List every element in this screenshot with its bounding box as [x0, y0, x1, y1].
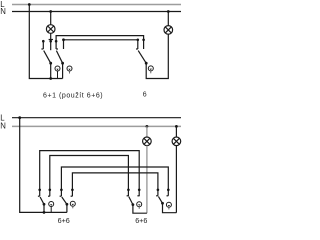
- glow lamp H4: [49, 202, 54, 207]
- junction lamp E2 on N: [167, 10, 170, 13]
- glow lamp H1: [55, 66, 60, 71]
- pivot dot S3b: [66, 203, 69, 206]
- wire N to lamp E1: [50, 12, 52, 25]
- switch blade S1a: [44, 51, 51, 64]
- pivot dot S4b: [161, 202, 164, 205]
- glow lamp H2: [67, 66, 72, 71]
- switch blade S2: [138, 51, 146, 64]
- wire pivot S1a to bus: [50, 63, 52, 78]
- wire N to lamp E3 (grey): [146, 126, 148, 137]
- traveler wire w3: [61, 167, 168, 196]
- switch blade S4b: [158, 196, 162, 203]
- junction pivot S1a on bus: [49, 77, 52, 80]
- pivot dot S1b: [61, 62, 64, 65]
- terminal dot right stub a: [137, 39, 140, 42]
- wire L line (bottom, black): [12, 117, 181, 119]
- lamp E3: [143, 137, 152, 146]
- contact ticks S4: [127, 195, 129, 197]
- wire L drop to left bus: [20, 118, 67, 213]
- wire lamp E1 to switch terminal: [50, 33, 52, 50]
- wire N line (top, black): [12, 11, 181, 13]
- junction lamp E1 to N: [49, 10, 52, 13]
- lamp E1: [46, 25, 55, 34]
- wire pivot S4b to box bus: [163, 203, 177, 212]
- wire N line (bottom, grey): [12, 125, 181, 127]
- junction L feed: [18, 116, 21, 119]
- wire lamp E2 to N: [167, 12, 169, 26]
- junction pivot S3a on bus: [43, 211, 46, 214]
- terminal dots left switch S3: [38, 189, 41, 192]
- wire pivot S3b to bus corner: [66, 204, 68, 212]
- svg-text:6: 6: [143, 91, 147, 98]
- pivot dot S1a: [49, 62, 52, 65]
- glow lamp H7: [166, 202, 171, 207]
- glow lamp H6: [137, 202, 142, 207]
- lamp E4: [172, 137, 181, 146]
- svg-text:6+6: 6+6: [58, 216, 70, 225]
- svg-text:N: N: [0, 122, 6, 131]
- svg-text:6+6: 6+6: [135, 216, 147, 225]
- wire pivot S4a to box bus: [133, 205, 147, 214]
- junction N to lamp E3: [146, 125, 149, 128]
- wire lamp E4 down to switch box: [175, 146, 177, 213]
- contact ticks S3: [38, 195, 40, 197]
- terminal dot right stub b: [142, 39, 145, 42]
- terminal dot stub2: [49, 40, 52, 43]
- svg-text:6+1 (použít 6+6): 6+1 (použít 6+6): [43, 92, 103, 99]
- lamp E2: [164, 26, 173, 35]
- glow lamp H5: [70, 201, 75, 206]
- switch blade S3a: [40, 197, 44, 204]
- pivot dot S2: [145, 62, 148, 65]
- wire N to lamp E4: [175, 126, 177, 137]
- switch blade S4a: [129, 197, 133, 205]
- switch blade S1b: [56, 51, 62, 64]
- wire pivot S1b to bus corner: [62, 63, 64, 78]
- terminal T-bar above stub2: [49, 39, 53, 41]
- terminal dots right switch S4: [127, 189, 130, 192]
- contact stub1 of switch S1a: [42, 40, 45, 43]
- wire lamp E3 down to switch box (grey): [146, 146, 148, 214]
- traveler wire w4: [72, 173, 157, 196]
- traveler wire w2: [50, 156, 129, 197]
- contact stub4 + traveler 2 corner: [64, 40, 138, 49]
- wire pivot S3a to bus: [43, 204, 45, 212]
- svg-text:N: N: [0, 7, 6, 16]
- wire L line (top, grey): [12, 4, 181, 6]
- glow lamp H3: [148, 66, 153, 71]
- switch blade S3b: [62, 197, 67, 204]
- wire pivot S2 to lamp E2: [146, 34, 168, 78]
- contact stub3 + traveler 1 corner: [56, 36, 144, 49]
- junction N to lamp E4: [175, 125, 178, 128]
- pivot dot S3a: [43, 203, 46, 206]
- wire L feed drop to bottom bus: [29, 5, 62, 79]
- pivot dot S4a: [132, 203, 135, 206]
- traveler wire w1: [40, 151, 140, 197]
- junction on L at x=29.3: [28, 3, 31, 6]
